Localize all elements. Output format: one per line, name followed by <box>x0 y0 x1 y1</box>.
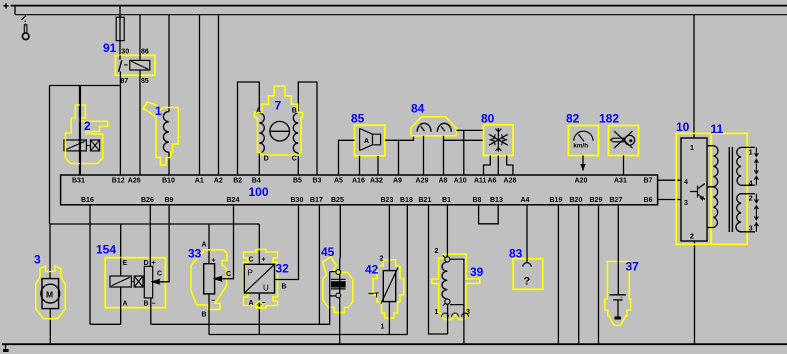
svg-text:B: B <box>292 107 297 114</box>
component 82 speedometer <box>569 126 599 156</box>
svg-text:A4: A4 <box>521 197 530 204</box>
svg-text:B6: B6 <box>644 197 653 204</box>
node A26 <box>128 177 141 184</box>
wire 85/A26 down to ECU <box>139 75 141 175</box>
primary winding bottom <box>714 187 718 228</box>
svg-text:A10: A10 <box>454 177 467 184</box>
component 42 coolant temperature sender <box>369 205 404 335</box>
primary winding stubs <box>707 146 714 228</box>
svg-text:B18: B18 <box>400 197 413 204</box>
coil right of distributor <box>293 113 298 153</box>
svg-text:A16: A16 <box>352 177 365 184</box>
coil left of distributor <box>259 113 264 153</box>
svg-text:B: B <box>144 301 149 308</box>
svg-text:A1: A1 <box>195 177 204 184</box>
component 33 throttle potentiometer <box>191 205 234 335</box>
svg-text:B27: B27 <box>610 197 623 204</box>
wire ground bus <box>2 343 787 345</box>
svg-text:A2: A2 <box>214 177 223 184</box>
wire 85 left pin to A5 <box>339 140 355 175</box>
wire A1 from line2 <box>199 15 201 175</box>
svg-text:82: 82 <box>566 112 580 126</box>
svg-text:45: 45 <box>321 245 335 259</box>
node B21 <box>419 197 432 204</box>
svg-text:10: 10 <box>676 120 690 134</box>
svg-text:30: 30 <box>121 49 129 56</box>
svg-text:+: + <box>152 260 156 267</box>
component 1 ignition pulse sensor <box>143 15 178 175</box>
svg-text:B: B <box>202 312 207 319</box>
node B12 <box>112 177 125 184</box>
node B10 <box>162 177 175 184</box>
node + battery plus terminal <box>3 3 8 8</box>
svg-text:86: 86 <box>141 49 149 56</box>
svg-text:−: − <box>152 301 156 308</box>
component 2 solenoid valve <box>64 86 108 176</box>
svg-text:C: C <box>226 271 231 278</box>
node B17 <box>310 197 323 204</box>
svg-text:182: 182 <box>599 112 619 126</box>
svg-text:1: 1 <box>155 104 162 118</box>
svg-text:B5: B5 <box>293 177 302 184</box>
svg-text:B21: B21 <box>419 197 432 204</box>
svg-text:+: + <box>212 257 216 264</box>
node B23 <box>381 197 394 204</box>
svg-text:B12: B12 <box>112 177 125 184</box>
node A31 <box>614 177 627 184</box>
svg-text:A: A <box>364 138 369 145</box>
node A9 <box>393 177 402 184</box>
component 11 ignition coil pack <box>707 133 758 244</box>
svg-text:A31: A31 <box>614 177 627 184</box>
svg-text:42: 42 <box>365 263 379 277</box>
svg-text:T: T <box>375 293 380 300</box>
wire 80 to A28 (jog) <box>507 156 513 176</box>
svg-text:7: 7 <box>275 99 282 113</box>
svg-text:B7: B7 <box>644 177 653 184</box>
node A28 <box>504 177 517 184</box>
wire B17 down to line A <box>318 205 320 325</box>
wire B20 to ground <box>578 205 580 344</box>
svg-text:2: 2 <box>690 234 694 241</box>
wire pin1 of 10 from line2 <box>693 15 695 138</box>
node B9 <box>165 197 174 204</box>
wire drop to 32 pin C <box>258 224 260 264</box>
svg-text:A28: A28 <box>504 177 517 184</box>
fuse F (with wire through) <box>116 7 124 56</box>
node B25 <box>331 197 344 204</box>
svg-text:A29: A29 <box>416 177 429 184</box>
svg-text:km/h: km/h <box>573 143 588 150</box>
wire B18 down to line B <box>406 205 408 335</box>
wire line B (sensor ground rail 2) <box>209 334 407 336</box>
wire top supply line 2 (15) <box>15 14 787 16</box>
svg-text:?: ? <box>524 276 531 288</box>
svg-text:C: C <box>157 271 162 278</box>
component 39 idle air valve <box>432 205 480 344</box>
svg-text:83: 83 <box>509 247 523 261</box>
svg-text:B: B <box>282 284 287 291</box>
node B1 <box>442 197 451 204</box>
wire A9 drop <box>398 140 400 175</box>
svg-text:D: D <box>144 260 149 267</box>
svg-text:B24: B24 <box>227 197 240 204</box>
wire 84 right pin to 80 with A10 tee <box>456 130 483 175</box>
svg-text:37: 37 <box>626 260 640 274</box>
svg-text:A9: A9 <box>393 177 402 184</box>
svg-text:154: 154 <box>96 243 116 257</box>
svg-text:M: M <box>46 289 53 299</box>
node B24 <box>227 197 240 204</box>
component 32 pressure sensor <box>244 205 299 335</box>
wire 85 right pin to 84 with A9 tee <box>385 136 414 141</box>
node A4 <box>521 197 530 204</box>
node A5 <box>334 177 343 184</box>
node A8 <box>439 177 448 184</box>
wire 84 pin to A8 with branch to 80 <box>444 136 484 175</box>
wire 87/B12 down to ECU <box>119 75 121 175</box>
transformer core <box>729 147 732 232</box>
secondary winding top <box>737 147 755 185</box>
svg-text:P: P <box>248 269 253 278</box>
svg-text:B17: B17 <box>310 197 323 204</box>
wire pin2 of 10 to ground <box>694 241 696 344</box>
svg-text:2: 2 <box>749 196 753 203</box>
svg-text:C: C <box>292 155 297 162</box>
node B3 <box>313 177 322 184</box>
component 7 distributor <box>238 82 318 175</box>
svg-text:B20: B20 <box>570 197 583 204</box>
wire rail 87 horizontal <box>50 85 121 87</box>
wire 86 from line2 <box>139 15 141 56</box>
wire drop to 33 plus pin <box>208 224 210 264</box>
wire pin C to B5 <box>297 153 299 175</box>
node A11 <box>474 177 487 184</box>
wire jumper B16 to 154 pin A <box>90 323 121 325</box>
svg-text:87: 87 <box>120 78 128 85</box>
relay 91 <box>115 55 155 75</box>
node B5 <box>293 177 302 184</box>
svg-text:80: 80 <box>481 112 495 126</box>
wire B7 stub to pin 4 of 10 <box>658 179 681 181</box>
node A20 <box>575 177 588 184</box>
svg-text:85: 85 <box>351 112 365 126</box>
spark arrows terminal 1 <box>754 147 758 156</box>
svg-text:A8: A8 <box>439 177 448 184</box>
node B27 <box>610 197 623 204</box>
node A16 <box>352 177 365 184</box>
component 3 fuel pump motor <box>36 224 66 344</box>
wire B29 to ground <box>598 205 600 344</box>
svg-text:B1: B1 <box>442 197 451 204</box>
wire 80 to A11 (jog) <box>484 156 491 176</box>
ignition switch key symbol <box>22 16 30 40</box>
svg-text:−: − <box>211 298 215 305</box>
svg-text:3: 3 <box>34 253 41 267</box>
svg-text:B10: B10 <box>162 177 175 184</box>
svg-text:+: + <box>262 256 266 263</box>
node A32 <box>370 177 383 184</box>
wire 82 to A20 with arrowhead <box>580 156 585 171</box>
svg-text:B9: B9 <box>165 197 174 204</box>
svg-text:A26: A26 <box>128 177 141 184</box>
svg-text:33: 33 <box>188 247 202 261</box>
node A6 <box>488 177 497 184</box>
node B8 <box>473 197 482 204</box>
wire drop from line1 to line2 <box>14 6 16 15</box>
node B6 <box>644 197 653 204</box>
svg-text:−: − <box>262 300 266 307</box>
svg-text:B19: B19 <box>550 197 563 204</box>
svg-text:1: 1 <box>435 309 439 316</box>
wire B16 down to line A <box>89 205 91 325</box>
wire 154 A down to line A <box>120 308 122 325</box>
wire B21 to line C <box>429 205 448 334</box>
svg-text:A: A <box>249 300 254 307</box>
component 154 fuel pump relay <box>105 205 169 308</box>
node A29 <box>416 177 429 184</box>
node B18 <box>400 197 413 204</box>
component 182 immobilizer (crossed key) <box>609 126 639 156</box>
svg-text:85: 85 <box>141 78 149 85</box>
svg-text:A5: A5 <box>334 177 343 184</box>
wire 154 B down to line A <box>150 308 152 325</box>
node B13 <box>490 197 503 204</box>
svg-text:B29: B29 <box>590 197 603 204</box>
svg-text:C: C <box>249 256 254 263</box>
component 84 speed/reference sensor <box>411 117 456 136</box>
svg-text:39: 39 <box>470 265 484 279</box>
svg-text:U: U <box>263 284 269 293</box>
svg-text:B23: B23 <box>381 197 394 204</box>
wire pin D to B4 <box>258 153 260 175</box>
wire drop to 154 pin E <box>120 224 122 258</box>
svg-text:3: 3 <box>466 309 470 316</box>
wire feed rail horizontal y224 <box>50 223 259 225</box>
svg-text:B25: B25 <box>331 197 344 204</box>
svg-text:B31: B31 <box>72 177 85 184</box>
svg-text:B26: B26 <box>141 197 154 204</box>
component 37 spark plug <box>605 205 631 326</box>
spark arrows terminal 2 <box>754 194 758 203</box>
node B30 <box>291 197 304 204</box>
component 45 knock sensor <box>323 257 353 344</box>
distributor rotor circle <box>270 121 290 141</box>
svg-text:91: 91 <box>103 41 117 55</box>
svg-text:4: 4 <box>684 179 688 186</box>
node B20 <box>570 197 583 204</box>
wire line A (sensor ground rail) <box>151 323 330 325</box>
svg-text:B4: B4 <box>252 177 261 184</box>
component 85 air flow meter <box>355 125 385 156</box>
svg-text:A20: A20 <box>575 177 588 184</box>
wire 80 to A6 <box>497 156 499 176</box>
svg-text:A6: A6 <box>488 177 497 184</box>
wire B8-B13 jumper loop <box>479 205 499 224</box>
node B19 <box>550 197 563 204</box>
svg-text:A: A <box>202 242 207 249</box>
node B29 <box>590 197 603 204</box>
node B26 <box>141 197 154 204</box>
node A10 <box>454 177 467 184</box>
svg-text:32: 32 <box>276 262 290 276</box>
svg-text:B13: B13 <box>490 197 503 204</box>
node B7 <box>644 177 653 184</box>
node B2 <box>233 177 242 184</box>
wire B2 bracket to pin A <box>238 82 260 175</box>
svg-text:2: 2 <box>84 119 91 133</box>
component 80 coolant temp sensor (snowflake) <box>484 125 514 156</box>
svg-text:1: 1 <box>749 150 753 157</box>
node A2 <box>214 177 223 184</box>
ground symbol <box>3 344 9 352</box>
component 10 ignition output stage <box>676 133 711 244</box>
svg-text:1: 1 <box>690 145 694 152</box>
svg-text:A: A <box>123 301 128 308</box>
svg-text:B2: B2 <box>233 177 242 184</box>
wire B19 to ground <box>557 205 559 344</box>
primary winding top <box>714 146 718 187</box>
svg-text:A: A <box>256 107 261 114</box>
secondary winding bottom <box>736 194 755 232</box>
svg-text:2: 2 <box>380 256 384 263</box>
node B31 <box>72 86 85 185</box>
svg-text:2: 2 <box>435 248 439 255</box>
svg-text:B8: B8 <box>473 197 482 204</box>
wire left feed rail down <box>49 86 51 225</box>
svg-text:A32: A32 <box>370 177 383 184</box>
wire B25 to 45 <box>339 205 341 259</box>
svg-text:3: 3 <box>684 200 688 207</box>
ECU control unit 100 box <box>61 175 658 205</box>
node B16 <box>81 197 94 204</box>
wire 85 bottom to A16 <box>359 156 361 175</box>
svg-text:B3: B3 <box>313 177 322 184</box>
node B4 <box>252 177 261 184</box>
component 83 diagnostic connector <box>513 205 543 289</box>
svg-text:E: E <box>123 260 128 267</box>
svg-text:1: 1 <box>381 324 385 331</box>
svg-text:84: 84 <box>411 102 425 116</box>
svg-text:A11: A11 <box>474 177 487 184</box>
svg-text:11: 11 <box>711 122 724 136</box>
wire 182 to A31 <box>623 156 625 176</box>
svg-text:100: 100 <box>249 185 269 199</box>
svg-text:B30: B30 <box>291 197 304 204</box>
wire 84 middle pin to A29 <box>423 136 425 175</box>
wire top supply line 1 (30) <box>11 5 787 7</box>
svg-text:3: 3 <box>749 226 753 233</box>
node A1 <box>195 177 204 184</box>
highlight outline 7 <box>255 86 303 155</box>
wire pin B bracket to B3 <box>298 82 317 175</box>
svg-text:4: 4 <box>749 181 753 188</box>
wire 85 bottom to A32 <box>377 156 379 175</box>
svg-text:D: D <box>264 155 269 162</box>
wire B6 stub to pin 3 of 10 <box>658 199 681 201</box>
wire A2 from line2 <box>218 15 220 175</box>
svg-text:B16: B16 <box>81 197 94 204</box>
